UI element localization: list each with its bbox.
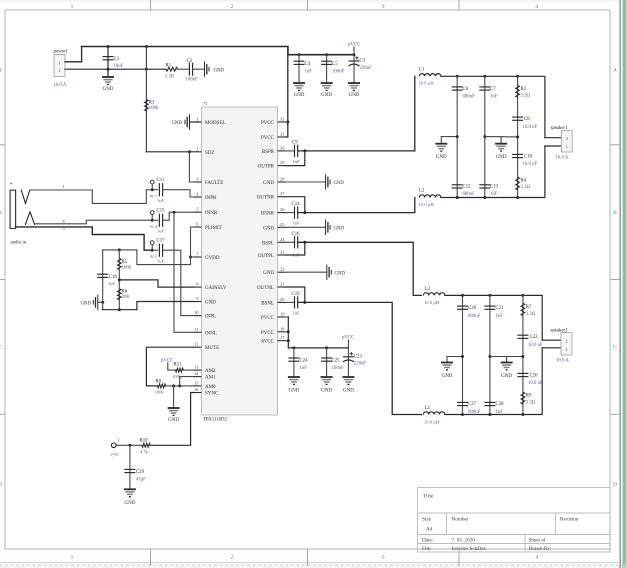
resistor R2 (516, 85, 520, 97)
wire OUTPR pin to node (286, 151, 305, 166)
svg-text:D: D (0, 482, 2, 488)
svg-text:GND: GND (349, 93, 360, 98)
svg-text:pVCC: pVCC (161, 359, 173, 364)
wire divider top to GVDD (137, 250, 191, 265)
wire OUTNL pin to node (286, 287, 305, 302)
inductor L2 (419, 195, 441, 198)
resistor R3 (145, 100, 149, 112)
wire gnd stub mid (500, 137, 502, 144)
svg-text:MUTE: MUTE (205, 346, 219, 351)
svg-text:PVCC: PVCC (261, 136, 275, 141)
svg-text:GND: GND (442, 374, 453, 379)
resistor R5 (117, 259, 121, 270)
wire C21-C28 branch (489, 295, 491, 414)
junction bus / C3 (353, 53, 356, 56)
capacitor C8 (512, 117, 523, 120)
wire in_r from jack tip (30, 190, 150, 204)
junction divider mid (118, 278, 121, 281)
svg-text:21: 21 (280, 282, 284, 287)
wire C23 vertical (347, 348, 349, 377)
svg-text:220uF: 220uF (360, 66, 373, 71)
svg-text:INNL: INNL (205, 331, 217, 336)
svg-text:C17: C17 (157, 239, 166, 244)
capacitor C27 (457, 402, 468, 405)
ground below C3 (348, 83, 360, 90)
wire divider mid to GAINSLV (119, 280, 193, 287)
svg-text:4: 4 (536, 555, 539, 561)
wire gnd stub filter2 (446, 357, 448, 363)
wire main PVCC rail (82, 47, 354, 55)
junction bottom rail / R9 (521, 413, 524, 416)
svg-text:220uF: 220uF (354, 362, 367, 367)
junction at C17 (151, 249, 154, 252)
resistor R9 (521, 392, 525, 404)
wire AVCC 17 stub (286, 340, 289, 342)
jack tip contact (21, 190, 30, 204)
junction AM0 / AM1 tie (178, 384, 181, 387)
svg-text:3: 3 (382, 555, 385, 561)
wire OUTPL pin to node (286, 242, 305, 255)
svg-text:GND: GND (263, 271, 274, 276)
wire mid filter1 (485, 136, 518, 138)
svg-text:3.3R: 3.3R (165, 75, 175, 80)
pin 16 SYNC (194, 392, 202, 394)
wire filter2 bottom rail to speaker pin1 (445, 348, 542, 415)
svg-text:sync: sync (111, 451, 119, 456)
wire gnd tap left filter1 (441, 136, 457, 138)
wire gnd stub (440, 137, 442, 144)
svg-text:C26: C26 (530, 373, 539, 378)
wire divider top (103, 249, 137, 251)
svg-text:GND: GND (334, 227, 345, 232)
junction bottom rail / C27 (461, 413, 464, 416)
junction C21 branch / mid wire (488, 355, 491, 358)
junction bottom rail / R4 (516, 196, 519, 199)
junction top rail / C20 (461, 294, 464, 297)
pin 15 AM0 (194, 385, 202, 387)
svg-text:100k: 100k (149, 106, 159, 111)
pin 28 GND (278, 181, 286, 183)
pin 32 PVCC (278, 121, 286, 123)
junction INNR / INNL tie (173, 211, 176, 214)
capacitor C5 (321, 61, 332, 64)
svg-text:C1: C1 (114, 57, 120, 62)
pin 20 BSNL (278, 301, 286, 303)
svg-text:32: 32 (280, 117, 284, 122)
wire into C11 (152, 189, 158, 191)
svg-text:47pF: 47pF (136, 478, 146, 483)
wire PLIMIT to GVDD node (191, 227, 194, 257)
svg-text:Invertor SchDoc: Invertor SchDoc (452, 546, 487, 552)
svg-text:Size: Size (422, 517, 432, 523)
svg-text:FAULTZ: FAULTZ (205, 181, 223, 186)
wire MUTE loop to R8 (146, 347, 193, 386)
svg-text:GND: GND (334, 181, 345, 186)
ground below C4 (293, 83, 305, 90)
svg-text:10.0 µH: 10.0 µH (424, 300, 440, 305)
wire gnd tap left filter2 (447, 356, 463, 358)
wire R1 to C2 (178, 68, 190, 70)
svg-text:680nF: 680nF (463, 192, 476, 197)
junction OUTNL / BSNL (303, 301, 306, 304)
capacitor C1 (103, 57, 114, 60)
svg-text:C8: C8 (524, 117, 530, 122)
svg-text:GND: GND (205, 301, 216, 306)
capacitor C7 (479, 87, 490, 90)
svg-text:100nF: 100nF (186, 78, 199, 83)
svg-text:100k: 100k (172, 374, 182, 379)
junction top rail / R2 (516, 75, 519, 78)
junction sync / C29 (128, 444, 131, 447)
ground below C24 (288, 377, 300, 384)
svg-text:L2: L2 (419, 189, 425, 194)
wire to speaker2 pin 2 (542, 339, 561, 341)
svg-text:MODSEL: MODSEL (205, 121, 226, 126)
pin 14 AM1 (194, 376, 202, 378)
green desktop strip bottom-right corner (617, 564, 626, 568)
ground right of C2 (205, 62, 210, 77)
svg-text:7. 03. 2020: 7. 03. 2020 (452, 537, 476, 543)
svg-text:Number: Number (452, 517, 469, 523)
wire in_g from jack ring (35, 220, 150, 224)
svg-text:4.7k: 4.7k (140, 450, 149, 455)
svg-text:PVCC: PVCC (261, 316, 275, 321)
svg-text:PVCC: PVCC (261, 331, 275, 336)
wire INNR node down to INNL (174, 212, 194, 332)
wire C29 branch (129, 445, 131, 489)
svg-text:C29: C29 (136, 470, 145, 475)
svg-text:AVCC: AVCC (261, 340, 275, 345)
svg-text:speaker2: speaker2 (551, 328, 569, 333)
junction bottom rail / C13 (483, 196, 486, 199)
svg-text:GND: GND (436, 155, 447, 160)
svg-text:2: 2 (565, 338, 567, 343)
resistor R6 (117, 289, 121, 300)
pin 4 INPR (194, 196, 202, 198)
junction gnd tap (101, 301, 104, 304)
junction zobel mid filter2 (521, 355, 524, 358)
svg-text:GND: GND (294, 93, 305, 98)
connector audio jack body (10, 190, 16, 228)
no-connect flag above C11 (150, 180, 154, 188)
junction bottom rail / C28 (488, 413, 491, 416)
svg-text:C13: C13 (490, 185, 499, 190)
svg-text:BSNR: BSNR (261, 212, 275, 217)
svg-text:16.0 A: 16.0 A (556, 156, 569, 161)
svg-text:OUTNL: OUTNL (257, 286, 274, 291)
capacitor C29 (124, 469, 135, 472)
ground below AM pins (168, 408, 180, 415)
wire C4 vertical (298, 55, 300, 83)
svg-text:L3: L3 (425, 287, 431, 292)
svg-text:Date:: Date: (422, 537, 434, 543)
wire C7-C13 branch (484, 76, 486, 197)
svg-text:1nF: 1nF (300, 366, 308, 371)
junction SDZ / FAULTZ tie (188, 150, 191, 153)
junction OUTPR / BSPR (303, 149, 306, 152)
capacitor C12 (452, 185, 463, 188)
svg-text:3.3Ω: 3.3Ω (521, 94, 531, 99)
svg-text:1uF: 1uF (157, 229, 165, 234)
svg-text:10.0 µH: 10.0 µH (419, 202, 435, 207)
svg-text:B: B (0, 210, 2, 216)
wire filter1 top rail to speaker pin2 (441, 76, 545, 137)
svg-text:speaker1: speaker1 (551, 126, 569, 131)
jack ring contact (25, 212, 35, 225)
svg-text:L1: L1 (419, 68, 425, 73)
wire R11 to AM2 pin 13 (183, 369, 193, 371)
svg-text:R2: R2 (521, 87, 527, 92)
junction OUTPL / BSPL (303, 241, 306, 244)
junction bottom rail / C12 (456, 196, 459, 199)
svg-text:OUTNR: OUTNR (257, 196, 275, 201)
pin 22 GND (278, 271, 286, 273)
svg-text:11: 11 (194, 327, 198, 332)
svg-text:16.0 A: 16.0 A (54, 83, 67, 88)
wire C18 branch (102, 250, 104, 310)
wire mid filter2 (490, 356, 523, 358)
resistor R1 (166, 67, 178, 71)
junction C20 branch / gnd tap (461, 355, 464, 358)
svg-text:10uF: 10uF (114, 64, 124, 69)
svg-text:INPR: INPR (205, 196, 217, 201)
svg-text:A4: A4 (426, 527, 433, 533)
svg-text:R1: R1 (166, 63, 172, 68)
svg-text:GAINSLV: GAINSLV (205, 286, 227, 291)
svg-text:C6: C6 (463, 87, 469, 92)
wire C11 to INPR (163, 190, 194, 197)
inductor L1 (419, 74, 441, 77)
sync input pin circle (111, 443, 116, 448)
svg-text:10.0 µH: 10.0 µH (424, 419, 440, 424)
svg-text:1nF: 1nF (496, 314, 504, 319)
wire into C15 (152, 219, 158, 221)
svg-text:1nF: 1nF (293, 311, 301, 316)
junction bus / C25 (325, 346, 328, 349)
svg-text:R5: R5 (122, 260, 128, 265)
wire OUTPL node to L3 (298, 242, 422, 295)
no-connect flag above C17 (150, 241, 154, 249)
svg-text:GND: GND (343, 389, 354, 394)
wire C1 vertical (107, 47, 109, 78)
svg-text:GND: GND (335, 271, 346, 276)
svg-text:BSNL: BSNL (261, 301, 274, 306)
resistor R4 (516, 177, 520, 190)
pin 13 AM2 (194, 369, 202, 371)
junction bus / C4 (298, 53, 301, 56)
capacitor C15 (159, 214, 162, 227)
wire C5 vertical (326, 55, 328, 83)
op-amp / amplifier IC U1 TPA3116D2 body (202, 107, 278, 415)
svg-text:2: 2 (566, 136, 568, 141)
wire C2 to gnd (193, 68, 205, 70)
svg-text:2: 2 (58, 68, 60, 73)
pin 19 PVCC (278, 316, 286, 318)
svg-text:C24: C24 (300, 359, 309, 364)
svg-text:GND: GND (214, 68, 225, 73)
svg-text:C18: C18 (109, 275, 118, 280)
svg-text:1uF: 1uF (108, 281, 116, 286)
svg-text:1: 1 (118, 438, 120, 443)
pin 27 OUTNR (278, 196, 286, 198)
capacitor C9 (295, 145, 298, 157)
pin 8 GAINSLV (194, 286, 202, 288)
ground filter2 mid (501, 363, 513, 370)
svg-text:1nF: 1nF (305, 69, 313, 74)
capacitor C3 (polarised) (349, 56, 360, 66)
wire SDZ to FAULTZ (189, 152, 193, 182)
svg-text:AM0: AM0 (205, 385, 216, 390)
wire gnd stub mid filter2 (506, 357, 508, 363)
capacitor C18 (97, 274, 108, 277)
pin 30 BSPR (278, 150, 286, 152)
svg-text:GND: GND (496, 155, 507, 160)
svg-text:C4: C4 (305, 62, 311, 67)
svg-text:C5: C5 (332, 62, 338, 67)
svg-text:3.3Ω: 3.3Ω (526, 312, 536, 317)
svg-text:GND: GND (124, 501, 135, 506)
wire filter1 bottom rail to speaker pin1 (441, 146, 545, 198)
wire GND pin 28 stub (286, 181, 326, 183)
svg-text:R4: R4 (521, 178, 527, 183)
wire PVCC 32 stub (286, 121, 288, 123)
svg-text:R6: R6 (122, 289, 128, 294)
wire R8 to AM0 pin 15 (166, 385, 194, 387)
junction at C11 (151, 188, 154, 191)
svg-text:GND: GND (288, 389, 299, 394)
svg-text:680nF: 680nF (468, 314, 481, 319)
svg-text:2: 2 (231, 555, 234, 561)
wire to ground below AM0 (173, 386, 175, 408)
svg-text:SDZ: SDZ (205, 151, 214, 156)
ground below C25 (321, 377, 333, 384)
wire BSPR to C9 (286, 150, 295, 152)
wire BSNR to C14 (286, 212, 295, 214)
svg-text:C16: C16 (292, 232, 301, 237)
svg-text:C11: C11 (157, 178, 165, 183)
connector speaker1 (562, 131, 573, 152)
pin 18 PVCC (278, 331, 286, 333)
capacitor C11 (159, 183, 162, 196)
junction pvcc 18 (287, 330, 290, 333)
svg-text:16.0 A: 16.0 A (556, 358, 569, 363)
pin 24 BSPL (278, 241, 286, 243)
capacitor C20 (457, 306, 468, 309)
wire R10 to sync pin (116, 444, 142, 446)
pin 29 OUTPR (278, 165, 286, 167)
pin 25 GND (278, 226, 286, 228)
capacitor C22 (517, 335, 528, 338)
wire OUTNR pin to node (286, 197, 305, 213)
capacitor C4 (294, 61, 305, 64)
svg-text:1nF: 1nF (293, 221, 301, 226)
wire in_l from jack sleeve (16, 227, 151, 250)
svg-text:C: C (613, 345, 617, 351)
svg-text:10.0 µH: 10.0 µH (419, 81, 435, 86)
svg-text:C10: C10 (524, 154, 533, 159)
pin 21 OUTNL (278, 286, 286, 288)
capacitor C21 (484, 306, 495, 309)
svg-text:2: 2 (196, 146, 198, 151)
svg-text:12: 12 (194, 342, 198, 347)
svg-text:10.0 nF: 10.0 nF (528, 343, 543, 348)
wire AM1 tie (180, 377, 194, 386)
inductor L4 (423, 412, 445, 415)
junction rail / drop (145, 45, 148, 48)
svg-text:20K: 20K (122, 295, 131, 300)
svg-text:GND: GND (321, 389, 332, 394)
junction top rail / C7 (483, 75, 486, 78)
svg-text:1uF: 1uF (157, 198, 165, 203)
svg-text:GND: GND (501, 374, 512, 379)
title block (418, 488, 611, 553)
svg-text:INNR: INNR (205, 211, 218, 216)
svg-text:680nF: 680nF (463, 95, 476, 100)
svg-text:R9: R9 (526, 394, 532, 399)
svg-text:3.3Ω: 3.3Ω (526, 401, 536, 406)
svg-text:C15: C15 (157, 209, 166, 214)
ground at pin 22 (327, 265, 332, 280)
svg-text:1: 1 (62, 184, 64, 189)
inductor L3 (423, 293, 445, 296)
pin 11 INNL (194, 331, 202, 333)
svg-text:AM1: AM1 (205, 376, 216, 381)
wire rail drop through R3 to SDZ (145, 47, 147, 152)
wire BSNL to C19 (286, 301, 295, 303)
svg-text:GND: GND (263, 226, 274, 231)
junction OUTNR / BSNR (303, 211, 306, 214)
wire GND pin 22 stub (286, 271, 327, 273)
svg-text:C20: C20 (468, 306, 477, 311)
svg-text:R11: R11 (174, 363, 182, 368)
junction C1 / power1 pin2 (107, 68, 110, 71)
pin 6 PLIMIT (194, 226, 202, 228)
ground left of divider (93, 295, 98, 310)
junction top rail / R7 (521, 294, 524, 297)
junction PVCC pins (286, 121, 289, 124)
pin 7 GVDD (194, 256, 202, 258)
svg-text:Sheet of: Sheet of (529, 536, 546, 543)
wire GND pin 25 stub (286, 226, 326, 228)
connector power1 (54, 55, 65, 77)
svg-text:4: 4 (536, 4, 539, 10)
ground below C29 (124, 489, 136, 496)
ground at pin 28 (326, 174, 331, 189)
svg-text:C: C (0, 345, 2, 351)
capacitor C6 (452, 87, 463, 90)
svg-text:C19: C19 (292, 292, 301, 297)
junction top rail / C6 (456, 75, 459, 78)
pin 1 MODSEL (194, 121, 202, 123)
svg-text:power1: power1 (54, 50, 69, 55)
svg-text:Revision: Revision (560, 517, 579, 523)
svg-text:1: 1 (71, 555, 74, 561)
svg-text:1uF: 1uF (157, 259, 165, 264)
svg-text:BSPR: BSPR (262, 150, 275, 155)
svg-text:OUTPL: OUTPL (258, 254, 274, 259)
svg-text:File:: File: (422, 546, 432, 552)
ground at MODSEL (185, 114, 190, 129)
svg-text:100nF: 100nF (332, 69, 345, 74)
svg-text:100k: 100k (122, 266, 132, 271)
junction avcc 17 (287, 339, 290, 342)
capacitor C17 (159, 244, 162, 257)
wire R7-C22-C26-R9 branch (522, 295, 524, 414)
svg-text:10.0 nF: 10.0 nF (523, 125, 538, 130)
resistor R8 (158, 384, 166, 388)
pin 3 FAULTZ (194, 181, 202, 183)
wire C17 to INPL (163, 250, 194, 315)
